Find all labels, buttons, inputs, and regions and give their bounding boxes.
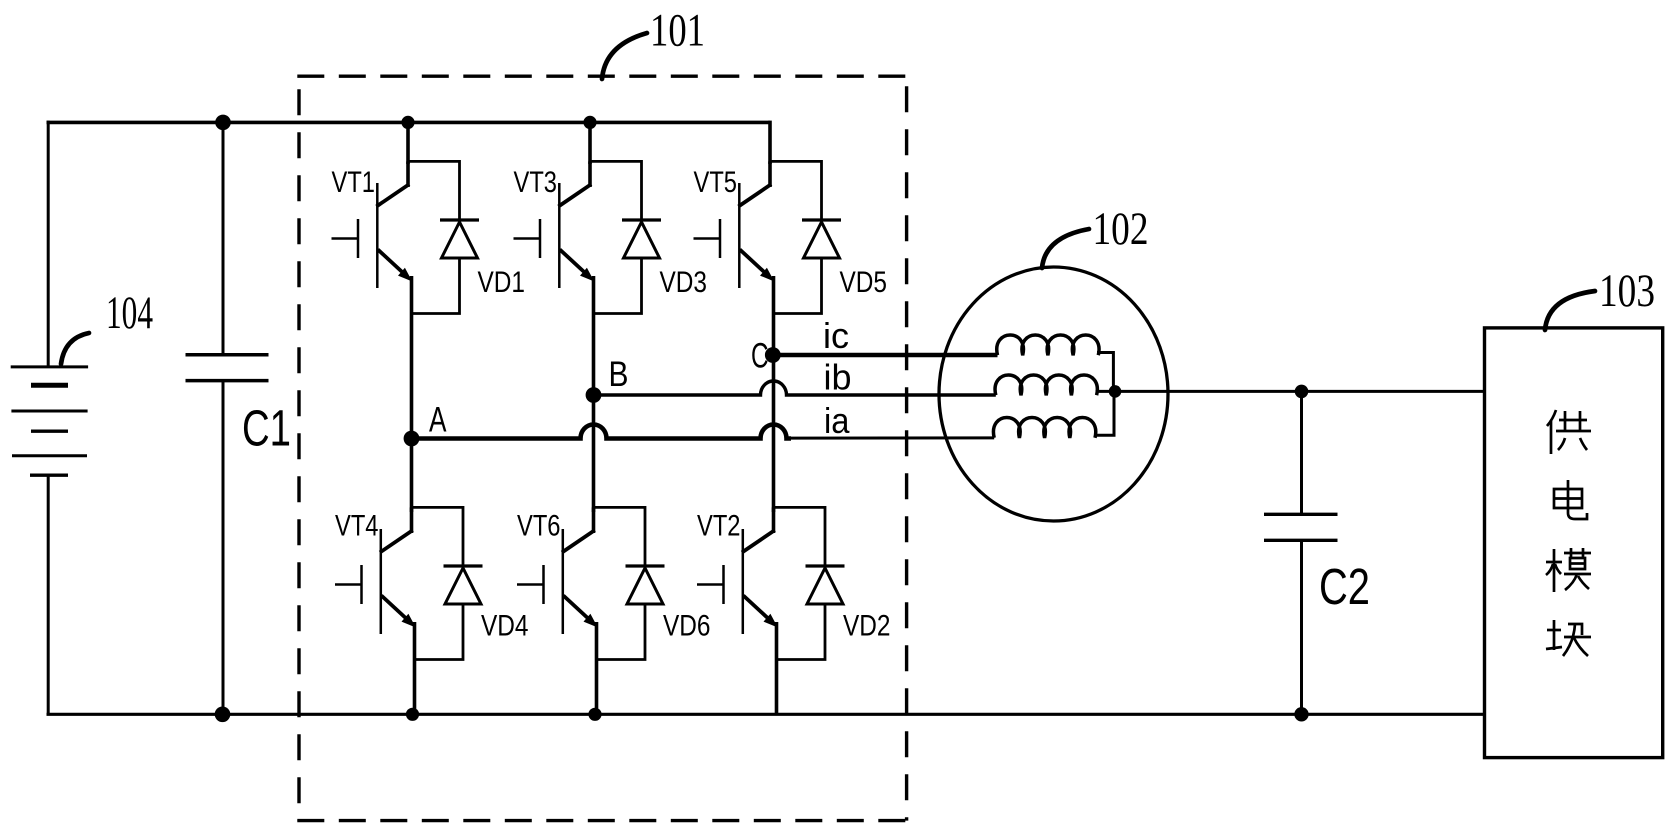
svg-text:VD2: VD2 <box>843 610 891 643</box>
svg-text:VD5: VD5 <box>840 266 888 299</box>
svg-text:VT2: VT2 <box>697 510 741 543</box>
svg-text:VT1: VT1 <box>332 166 376 199</box>
svg-text:VD1: VD1 <box>478 266 526 299</box>
svg-text:ic: ic <box>823 315 849 356</box>
svg-text:C2: C2 <box>1319 558 1370 615</box>
svg-text:VD6: VD6 <box>663 610 711 643</box>
svg-text:VD4: VD4 <box>481 610 529 643</box>
svg-text:104: 104 <box>106 287 153 339</box>
svg-text:103: 103 <box>1599 265 1655 317</box>
svg-text:102: 102 <box>1093 203 1149 255</box>
svg-text:B: B <box>609 355 629 394</box>
svg-text:C1: C1 <box>242 400 291 457</box>
svg-text:A: A <box>429 401 447 440</box>
svg-text:ia: ia <box>824 400 850 441</box>
svg-text:VD3: VD3 <box>660 266 708 299</box>
svg-text:VT5: VT5 <box>694 166 738 199</box>
svg-text:VT4: VT4 <box>335 510 379 543</box>
svg-text:101: 101 <box>650 5 705 57</box>
svg-text:ib: ib <box>824 357 852 398</box>
svg-text:VT3: VT3 <box>514 166 558 199</box>
svg-text:VT6: VT6 <box>517 510 561 543</box>
